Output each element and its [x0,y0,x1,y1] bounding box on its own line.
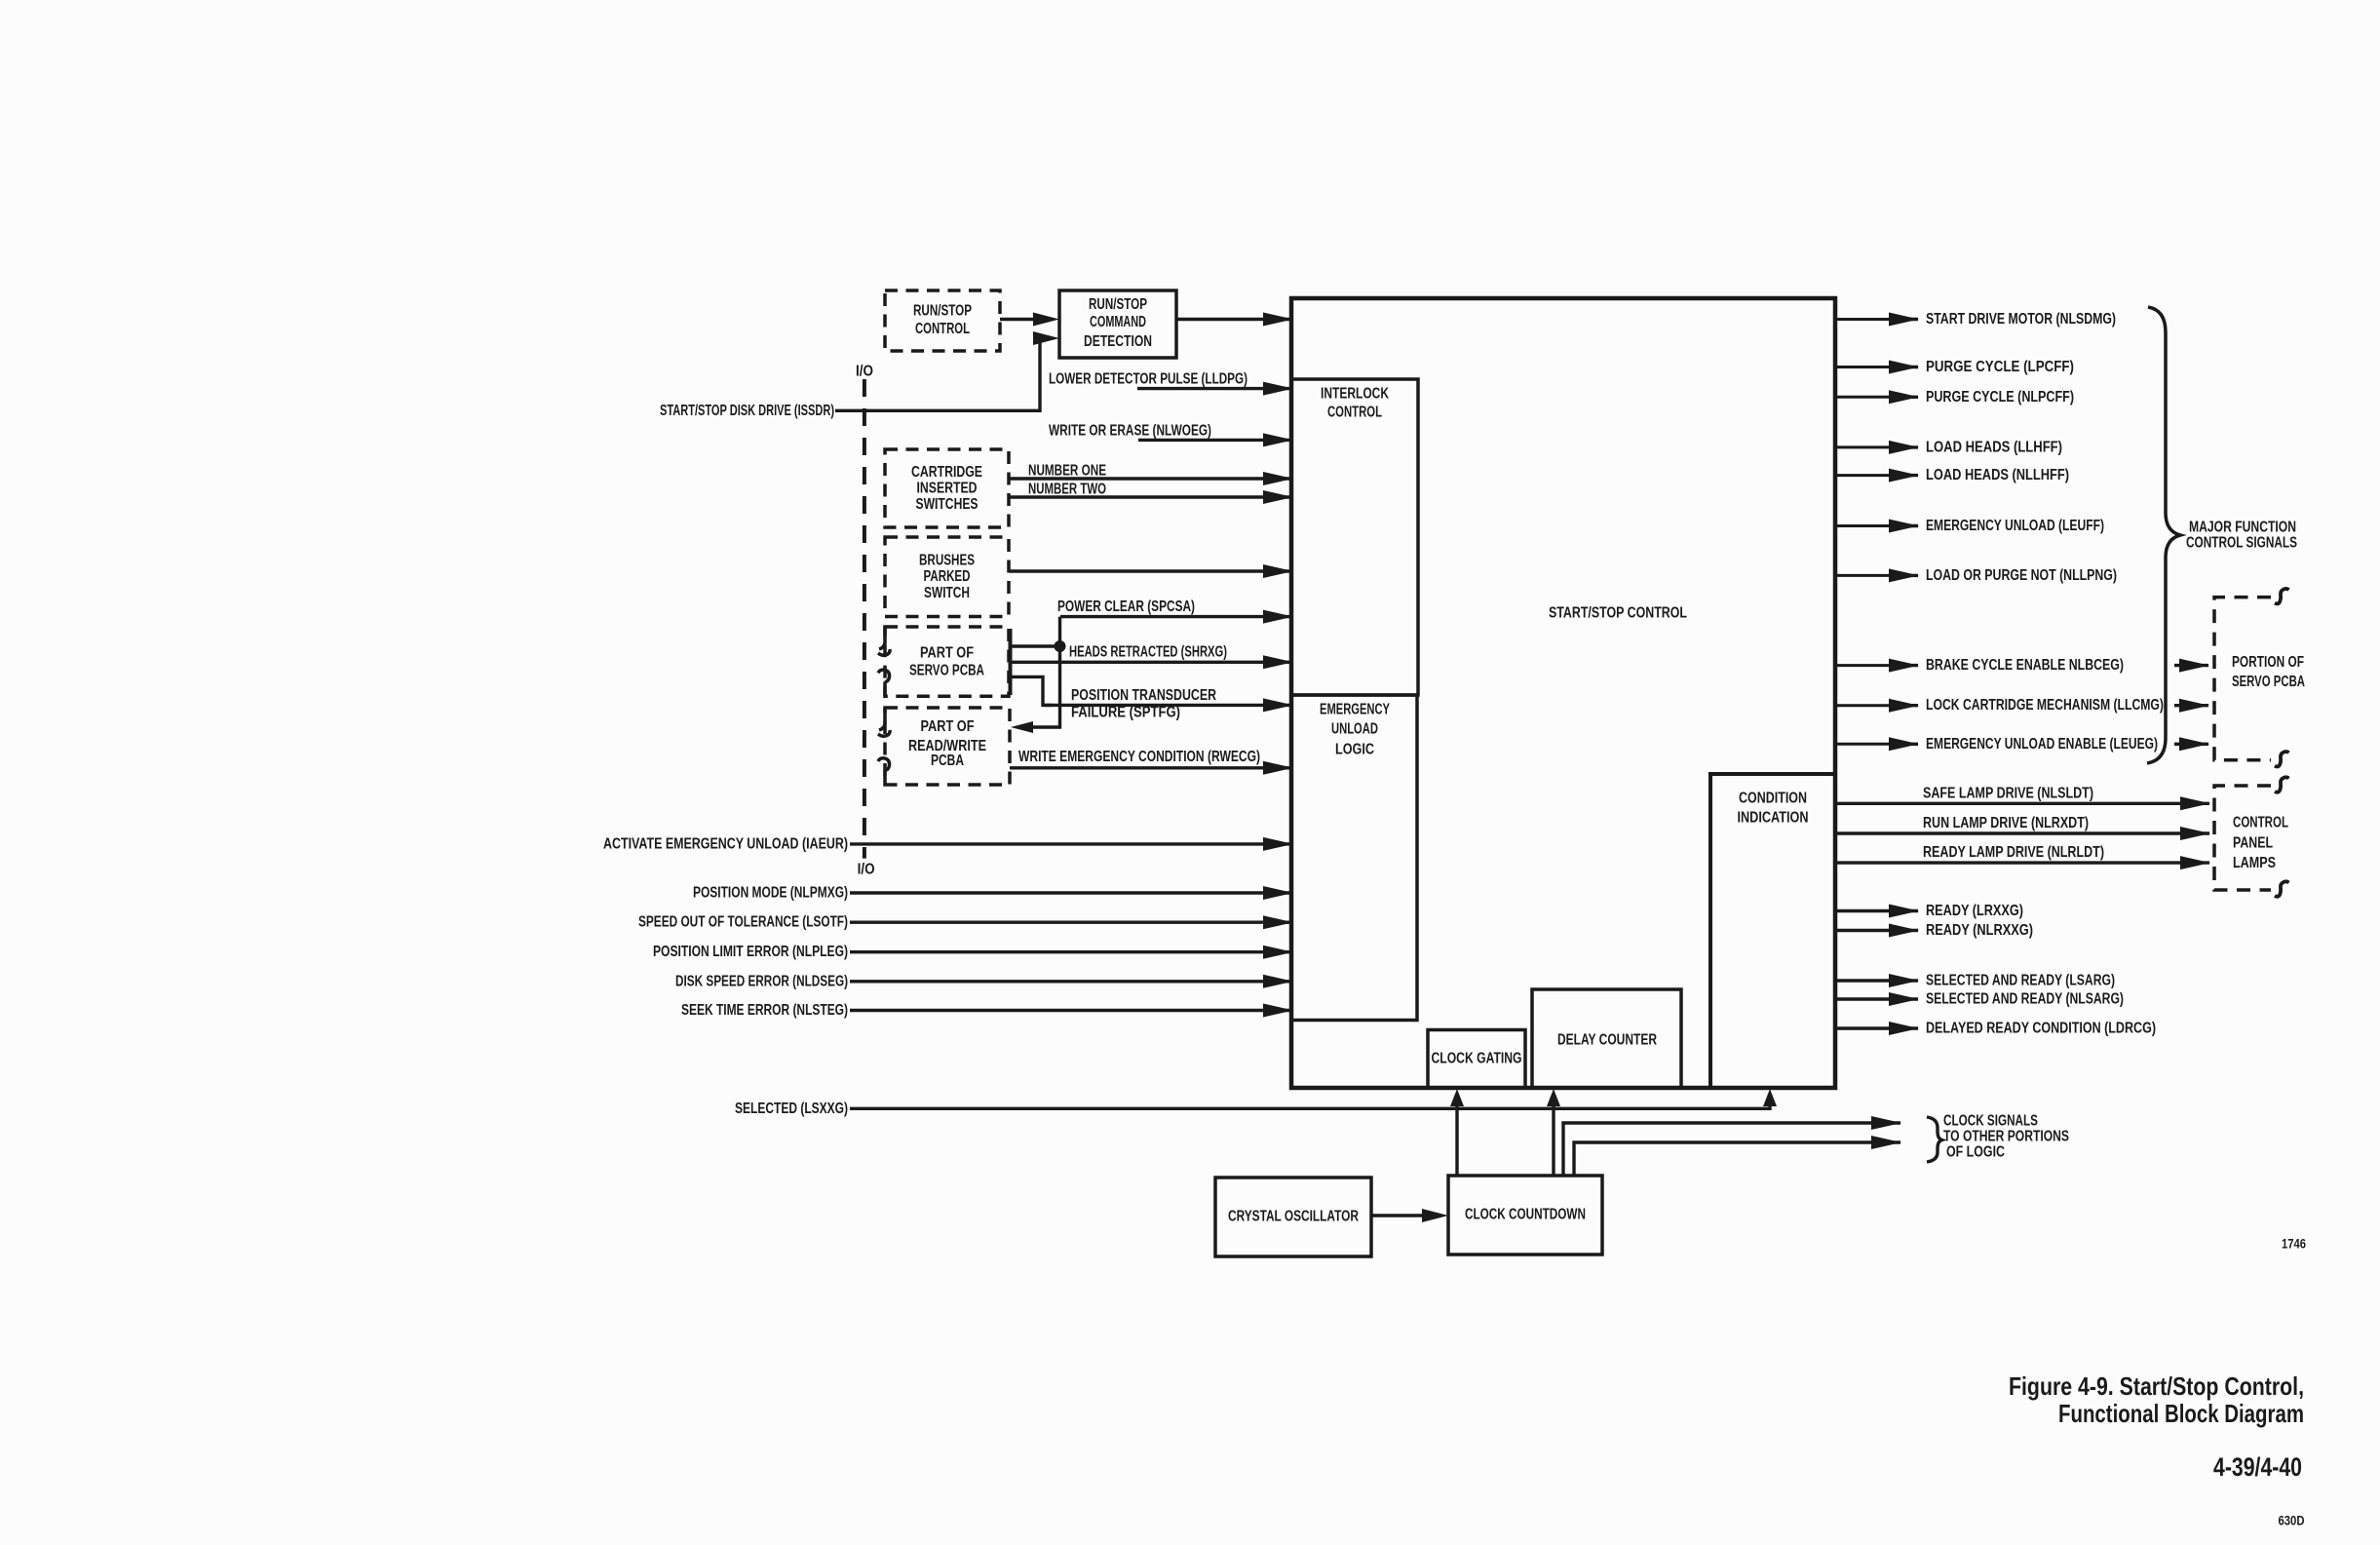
svg-text:READY (LRXXG): READY (LRXXG) [1926,903,2023,919]
svg-text:UNLOAD: UNLOAD [1331,721,1378,738]
svg-text:CONTROL SIGNALS: CONTROL SIGNALS [2186,535,2297,552]
svg-text:CONTROL: CONTROL [915,321,970,337]
svg-text:LAMPS: LAMPS [2233,855,2276,871]
svg-text:MAJOR FUNCTION: MAJOR FUNCTION [2189,520,2296,536]
svg-text:LOAD HEADS (LLHFF): LOAD HEADS (LLHFF) [1926,439,2062,455]
svg-text:1746: 1746 [2282,1237,2306,1252]
svg-text:EMERGENCY UNLOAD ENABLE (LEUEG: EMERGENCY UNLOAD ENABLE (LEUEG) [1926,736,2158,753]
svg-text:NUMBER ONE: NUMBER ONE [1028,463,1106,480]
svg-text:POSITION LIMIT ERROR (NLPLEG): POSITION LIMIT ERROR (NLPLEG) [653,944,848,960]
svg-text:SELECTED AND READY (NLSARG): SELECTED AND READY (NLSARG) [1926,991,2124,1008]
svg-text:WRITE EMERGENCY CONDITION (RWE: WRITE EMERGENCY CONDITION (RWECG) [1018,749,1260,765]
svg-text:DELAYED READY CONDITION (LDRCG: DELAYED READY CONDITION (LDRCG) [1926,1021,2156,1037]
svg-text:PCBA: PCBA [931,753,964,769]
svg-text:RUN/STOP: RUN/STOP [913,303,972,320]
svg-text:START DRIVE MOTOR (NLSDMG): START DRIVE MOTOR (NLSDMG) [1926,311,2116,328]
svg-text:READY (NLRXXG): READY (NLRXXG) [1926,922,2033,939]
svg-text:I/O: I/O [856,364,873,380]
svg-text:SEEK TIME ERROR (NLSTEG): SEEK TIME ERROR (NLSTEG) [681,1002,848,1019]
svg-text:POSITION MODE (NLPMXG): POSITION MODE (NLPMXG) [693,885,848,902]
svg-text:PARKED: PARKED [924,568,971,585]
svg-text:LOGIC: LOGIC [1335,742,1374,758]
svg-text:TO OTHER PORTIONS: TO OTHER PORTIONS [1943,1129,2069,1145]
svg-text:BRUSHES: BRUSHES [919,553,975,569]
svg-text:PART OF: PART OF [921,718,975,735]
svg-text:Functional Block Diagram: Functional Block Diagram [2058,1399,2304,1428]
svg-text:EMERGENCY: EMERGENCY [1320,702,1390,718]
svg-text:FAILURE (SPTFG): FAILURE (SPTFG) [1071,705,1180,721]
svg-text:SWITCH: SWITCH [924,585,970,601]
svg-text:POSITION TRANSDUCER: POSITION TRANSDUCER [1071,687,1216,704]
svg-text:SELECTED AND READY (LSARG): SELECTED AND READY (LSARG) [1926,973,2115,989]
svg-text:READY LAMP DRIVE (NLRLDT): READY LAMP DRIVE (NLRLDT) [1923,844,2104,861]
svg-text:CLOCK SIGNALS: CLOCK SIGNALS [1943,1113,2038,1130]
svg-text:SERVO PCBA: SERVO PCBA [909,662,984,678]
svg-text:SELECTED (LSXXG): SELECTED (LSXXG) [735,1101,848,1117]
svg-text:SPEED OUT OF TOLERANCE (LSOTF): SPEED OUT OF TOLERANCE (LSOTF) [638,914,848,931]
svg-text:I/O: I/O [858,862,875,878]
svg-text:START/STOP DISK DRIVE (ISSDR): START/STOP DISK DRIVE (ISSDR) [660,403,834,419]
svg-text:LOCK CARTRIDGE MECHANISM (LLCM: LOCK CARTRIDGE MECHANISM (LLCMG) [1926,697,2164,714]
svg-text:PURGE CYCLE (NLPCFF): PURGE CYCLE (NLPCFF) [1926,389,2074,406]
svg-text:BRAKE CYCLE ENABLE NLBCEG): BRAKE CYCLE ENABLE NLBCEG) [1926,657,2124,674]
svg-text:LOAD OR PURGE NOT (NLLPNG): LOAD OR PURGE NOT (NLLPNG) [1926,567,2117,584]
svg-text:CLOCK COUNTDOWN: CLOCK COUNTDOWN [1465,1207,1586,1223]
svg-text:SAFE LAMP DRIVE (NLSLDT): SAFE LAMP DRIVE (NLSLDT) [1923,786,2093,802]
svg-text:INDICATION: INDICATION [1738,810,1809,827]
svg-text:COMMAND: COMMAND [1090,314,1146,330]
svg-text:PORTION OF: PORTION OF [2232,654,2304,671]
svg-text:CONTROL: CONTROL [1327,405,1382,421]
svg-text:DISK SPEED ERROR (NLDSEG): DISK SPEED ERROR (NLDSEG) [675,973,848,989]
svg-text:PANEL: PANEL [2233,835,2273,852]
svg-text:ACTIVATE EMERGENCY UNLOAD (IAE: ACTIVATE EMERGENCY UNLOAD (IAEUR) [603,835,848,852]
svg-text:LOWER DETECTOR PULSE (LLDPG): LOWER DETECTOR PULSE (LLDPG) [1049,371,1248,388]
svg-text:DELAY COUNTER: DELAY COUNTER [1557,1032,1657,1049]
svg-text:RUN/STOP: RUN/STOP [1089,296,1147,313]
svg-text:Figure 4-9. Start/Stop Control: Figure 4-9. Start/Stop Control, [2009,1371,2304,1401]
svg-text:LOAD HEADS (NLLHFF): LOAD HEADS (NLLHFF) [1926,467,2069,483]
svg-text:630D: 630D [2279,1514,2305,1528]
svg-text:POWER CLEAR (SPCSA): POWER CLEAR (SPCSA) [1057,599,1195,615]
svg-text:4-39/4-40: 4-39/4-40 [2213,1452,2302,1482]
svg-text:CRYSTAL OSCILLATOR: CRYSTAL OSCILLATOR [1228,1209,1359,1225]
svg-text:RUN LAMP DRIVE (NLRXDT): RUN LAMP DRIVE (NLRXDT) [1923,815,2089,831]
svg-text:SWITCHES: SWITCHES [916,496,979,513]
svg-text:CONDITION: CONDITION [1739,791,1807,807]
svg-text:HEADS RETRACTED (SHRXG): HEADS RETRACTED (SHRXG) [1069,644,1227,661]
svg-text:PURGE CYCLE (LPCFF): PURGE CYCLE (LPCFF) [1926,359,2074,375]
svg-text:CARTRIDGE: CARTRIDGE [911,464,982,481]
svg-text:DETECTION: DETECTION [1084,333,1152,350]
svg-text:CONTROL: CONTROL [2233,815,2288,831]
svg-text:WRITE OR ERASE (NLWOEG): WRITE OR ERASE (NLWOEG) [1049,422,1211,439]
svg-text:PART OF: PART OF [920,644,974,661]
svg-text:INTERLOCK: INTERLOCK [1321,386,1390,403]
svg-text:NUMBER TWO: NUMBER TWO [1028,482,1106,498]
svg-text:SERVO PCBA: SERVO PCBA [2232,674,2305,690]
svg-text:EMERGENCY UNLOAD (LEUFF): EMERGENCY UNLOAD (LEUFF) [1926,518,2104,534]
svg-text:START/STOP CONTROL: START/STOP CONTROL [1549,605,1687,622]
svg-text:INSERTED: INSERTED [917,481,978,497]
svg-text:OF LOGIC: OF LOGIC [1946,1144,2005,1161]
svg-text:CLOCK GATING: CLOCK GATING [1432,1051,1522,1067]
